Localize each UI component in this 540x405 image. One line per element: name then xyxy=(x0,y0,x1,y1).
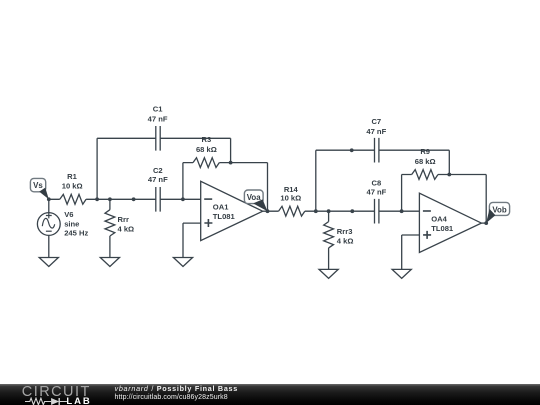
svg-text:V6: V6 xyxy=(64,210,73,219)
svg-text:47 nF: 47 nF xyxy=(148,175,168,184)
svg-text:C8: C8 xyxy=(372,178,382,187)
svg-text:sine: sine xyxy=(64,219,79,228)
svg-text:Rrr: Rrr xyxy=(118,215,129,224)
svg-text:4 kΩ: 4 kΩ xyxy=(118,225,135,234)
svg-text:OA1: OA1 xyxy=(213,202,229,211)
svg-text:R9: R9 xyxy=(420,147,430,156)
svg-text:47 nF: 47 nF xyxy=(366,127,386,136)
svg-text:TL081: TL081 xyxy=(213,212,236,221)
svg-text:Voa: Voa xyxy=(247,193,261,202)
svg-text:68 kΩ: 68 kΩ xyxy=(196,145,217,154)
svg-text:10 kΩ: 10 kΩ xyxy=(62,181,83,190)
svg-text:Rrr3: Rrr3 xyxy=(337,227,353,236)
svg-text:245 Hz: 245 Hz xyxy=(64,229,88,238)
svg-text:Vob: Vob xyxy=(492,205,506,214)
svg-text:R1: R1 xyxy=(67,172,77,181)
svg-text:Vs: Vs xyxy=(33,181,43,190)
svg-text:47 nF: 47 nF xyxy=(148,115,168,124)
svg-text:OA4: OA4 xyxy=(431,214,447,223)
svg-text:C7: C7 xyxy=(371,117,381,126)
svg-text:4 kΩ: 4 kΩ xyxy=(337,237,354,246)
svg-text:47 nF: 47 nF xyxy=(366,188,386,197)
svg-text:68 kΩ: 68 kΩ xyxy=(415,157,436,166)
svg-text:R3: R3 xyxy=(202,135,212,144)
svg-text:C2: C2 xyxy=(153,166,163,175)
svg-text:10 kΩ: 10 kΩ xyxy=(280,194,301,203)
svg-text:TL081: TL081 xyxy=(431,224,454,233)
svg-text:C1: C1 xyxy=(153,105,163,114)
